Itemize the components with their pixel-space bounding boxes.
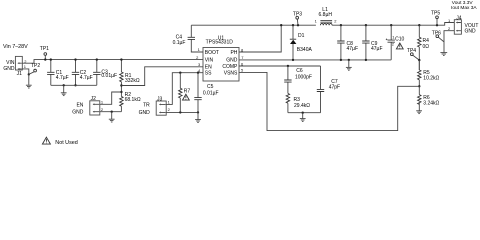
- capacitor C10: [386, 25, 395, 60]
- node R4 top: [418, 24, 420, 26]
- ground R6: [416, 111, 422, 114]
- svg-text:10.2kΩ: 10.2kΩ: [423, 76, 439, 82]
- svg-text:D1: D1: [298, 33, 305, 39]
- node C9 gnd: [365, 59, 367, 61]
- connector J3: [156, 101, 166, 115]
- capacitor C9: [362, 25, 369, 60]
- wire VOUT rail: [332, 23, 454, 26]
- svg-text:BOOT: BOOT: [205, 50, 219, 56]
- svg-text:332kΩ: 332kΩ: [125, 78, 140, 84]
- wire J2 pin1 to EN divider: [100, 92, 122, 104]
- wire J1 pin1 to ground: [22, 69, 29, 75]
- svg-text:EN: EN: [76, 102, 83, 108]
- svg-text:29.4kΩ: 29.4kΩ: [294, 103, 310, 109]
- svg-text:GND: GND: [3, 66, 15, 72]
- wire VSNS feedback: [239, 72, 419, 130]
- node PH riser: [280, 24, 282, 26]
- wire PH pin riser: [239, 25, 281, 52]
- resistor R6: [418, 86, 421, 110]
- svg-text:C6: C6: [296, 68, 303, 74]
- wire J4 pin2 gnd: [444, 31, 454, 53]
- node R1 top: [120, 58, 122, 60]
- wire boot top to PH node: [191, 24, 316, 26]
- node comp gnd stem: [302, 112, 304, 114]
- svg-text:C5: C5: [207, 84, 214, 90]
- node R7 bottom: [179, 111, 181, 113]
- warning triangle R7: [183, 94, 190, 100]
- svg-text:0.01µF: 0.01µF: [203, 90, 219, 96]
- svg-text:TP5: TP5: [431, 11, 440, 17]
- node SS C5 tap: [197, 72, 199, 74]
- connector J1: [15, 56, 22, 70]
- svg-text:GND: GND: [139, 110, 151, 116]
- node C9 top: [365, 24, 367, 26]
- node D1 gnd: [292, 59, 294, 61]
- svg-text:J1: J1: [17, 71, 23, 77]
- node R5 R6 junction: [418, 85, 420, 87]
- testpoint TP4: [410, 53, 419, 60]
- svg-text:0.01µF: 0.01µF: [101, 73, 117, 79]
- svg-text:GND: GND: [465, 29, 477, 35]
- svg-text:TP3: TP3: [293, 12, 302, 18]
- node C8 top: [340, 24, 342, 26]
- testpoint TP3: [296, 16, 299, 25]
- ground comp network: [300, 113, 306, 122]
- wire comp gnd rail: [288, 112, 321, 114]
- svg-text:TR: TR: [143, 103, 150, 109]
- wire GND pin7 rail: [239, 59, 391, 61]
- svg-text:VSNS: VSNS: [224, 70, 238, 76]
- svg-text:47µF: 47µF: [347, 46, 359, 52]
- wire main input rail: [22, 60, 203, 64]
- node J2 gnd: [111, 111, 113, 113]
- wire bottom cap rail: [51, 84, 97, 86]
- ground U1 area: [346, 60, 352, 70]
- op IC U1 TPS54331D: [203, 48, 239, 82]
- ground J4: [440, 53, 447, 56]
- wire J3 pin1 to SS: [166, 73, 203, 105]
- node EN tap: [120, 84, 122, 86]
- svg-text:J4: J4: [456, 15, 462, 21]
- node D1: [292, 24, 294, 26]
- resistor R2: [120, 96, 123, 111]
- svg-text:0.1µF: 0.1µF: [173, 40, 186, 46]
- svg-text:J3: J3: [157, 96, 163, 102]
- testpoint TP2: [29, 69, 37, 74]
- svg-text:1000pF: 1000pF: [295, 74, 312, 80]
- svg-text:VIN: VIN: [6, 60, 15, 66]
- svg-text:C10: C10: [395, 36, 404, 42]
- ground input caps: [61, 85, 67, 95]
- testpoint TP5: [436, 16, 439, 25]
- node TP1 on rail: [44, 58, 46, 60]
- svg-text:47µF: 47µF: [371, 46, 383, 52]
- svg-text:Not Used: Not Used: [55, 140, 77, 146]
- node gnd stem: [63, 84, 65, 86]
- node TP3: [297, 24, 299, 26]
- svg-text:GND: GND: [226, 58, 238, 64]
- svg-text:R3: R3: [294, 97, 301, 103]
- node C1 top: [50, 58, 52, 60]
- warning triangle C10: [396, 43, 403, 49]
- svg-text:4.7µF: 4.7µF: [80, 75, 93, 81]
- inductor L1: [320, 21, 332, 26]
- svg-text:PH: PH: [230, 50, 237, 56]
- node C8 gnd: [340, 59, 342, 61]
- node TP5: [436, 24, 438, 26]
- capacitor C3: [93, 60, 100, 86]
- svg-text:4.7µF: 4.7µF: [56, 75, 69, 81]
- node C2 bottom: [74, 84, 76, 86]
- connector J2: [90, 101, 100, 115]
- diode D1 B340A: [290, 25, 297, 60]
- svg-text:SS: SS: [205, 71, 212, 77]
- resistor R1: [120, 60, 123, 97]
- svg-text:Vin 7–28V: Vin 7–28V: [3, 44, 28, 50]
- svg-text:J2: J2: [91, 96, 97, 102]
- ground SS net: [195, 112, 201, 122]
- node J1 gnd junction: [28, 73, 30, 75]
- resistor R3: [286, 93, 289, 112]
- ground J1: [26, 74, 32, 88]
- svg-text:TPS54331D: TPS54331D: [206, 40, 234, 46]
- svg-text:VIN: VIN: [205, 58, 214, 64]
- svg-text:Iout Max 3A: Iout Max 3A: [451, 5, 477, 11]
- svg-text:47pF: 47pF: [329, 85, 340, 91]
- testpoint TP1: [44, 53, 47, 60]
- node C10 top: [390, 24, 392, 26]
- node gnd stem U1: [348, 59, 350, 61]
- svg-text:COMP: COMP: [222, 64, 238, 70]
- svg-text:R7: R7: [184, 89, 191, 95]
- capacitor C4 boot: [188, 25, 203, 52]
- capacitor C6: [284, 66, 291, 93]
- node C2 top: [74, 58, 76, 60]
- node J2 tap: [120, 91, 122, 93]
- svg-text:TP1: TP1: [40, 46, 49, 52]
- capacitor C2: [72, 60, 79, 86]
- svg-text:TP2: TP2: [31, 63, 40, 69]
- warning triangle note: [42, 137, 50, 144]
- node C6 tap: [287, 65, 289, 67]
- capacitor C8: [337, 25, 344, 60]
- node TP4 junction: [418, 59, 420, 61]
- ground J2: [109, 112, 115, 122]
- svg-text:TP4: TP4: [407, 48, 416, 54]
- svg-text:TP6: TP6: [432, 30, 441, 36]
- wire J2 pin2 gnd rail: [100, 111, 122, 113]
- svg-text:0Ω: 0Ω: [423, 44, 430, 50]
- resistor R7: [179, 73, 182, 113]
- resistor R4: [418, 25, 421, 70]
- svg-text:6.8µH: 6.8µH: [319, 12, 333, 18]
- node SS R7 tap: [179, 72, 181, 74]
- node C5 bottom gnd: [197, 111, 199, 113]
- capacitor C1: [47, 60, 54, 86]
- node C3 top: [96, 58, 98, 60]
- resistor R5: [418, 60, 421, 86]
- wire EN net to pin3: [121, 67, 203, 86]
- svg-text:GND: GND: [72, 110, 84, 116]
- capacitor C7: [317, 66, 324, 113]
- wire COMP net: [239, 65, 321, 67]
- capacitor C5: [194, 73, 201, 113]
- testpoint TP6: [436, 35, 444, 42]
- svg-text:68.1kΩ: 68.1kΩ: [125, 97, 141, 103]
- svg-text:B340A: B340A: [297, 47, 313, 53]
- wire J3 pin2 gnd rail: [166, 111, 198, 113]
- svg-text:3.24kΩ: 3.24kΩ: [423, 100, 439, 106]
- connector J4: [454, 20, 461, 35]
